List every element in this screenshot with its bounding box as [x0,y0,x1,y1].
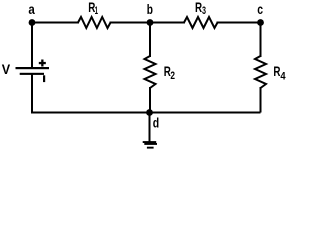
resistor R1 [78,17,111,28]
battery minus tick [43,75,45,82]
wire b down to R2 [149,23,151,58]
node b [147,19,154,26]
battery V top plate (+) [16,67,50,69]
svg-text:V: V [2,61,11,77]
wire R2 to d [149,87,151,113]
svg-text:3: 3 [202,5,206,17]
wire R3 to c [217,22,261,24]
node c [257,19,264,26]
resistor R4 [255,56,266,88]
svg-text:2: 2 [170,70,175,82]
node a [29,19,36,26]
ground bar 1 [143,141,157,143]
wire battery to bottom left corner [32,75,150,113]
wire a to R1 (top left horizontal) [32,22,79,24]
ground bar 3 [147,147,154,149]
svg-text:1: 1 [95,5,98,17]
wire a down to battery top plate [31,23,33,69]
svg-text:c: c [257,1,263,17]
battery plus sign [39,62,46,64]
wire c down to R4 [260,23,262,58]
wire b to R3 [150,22,185,24]
wire R1 to b [110,22,151,24]
wire d down to ground [149,113,151,143]
svg-text:d: d [153,115,159,131]
ground bar 2 [144,143,157,145]
svg-text:a: a [28,1,35,17]
resistor R3 [184,17,218,28]
wire bottom right: d to right vertical [150,112,261,114]
resistor R2 [145,56,156,88]
battery V bottom plate [20,73,44,75]
svg-text:4: 4 [280,71,286,83]
node d [146,109,153,116]
wire R4 to bottom wire [260,87,262,113]
svg-text:b: b [147,1,153,17]
